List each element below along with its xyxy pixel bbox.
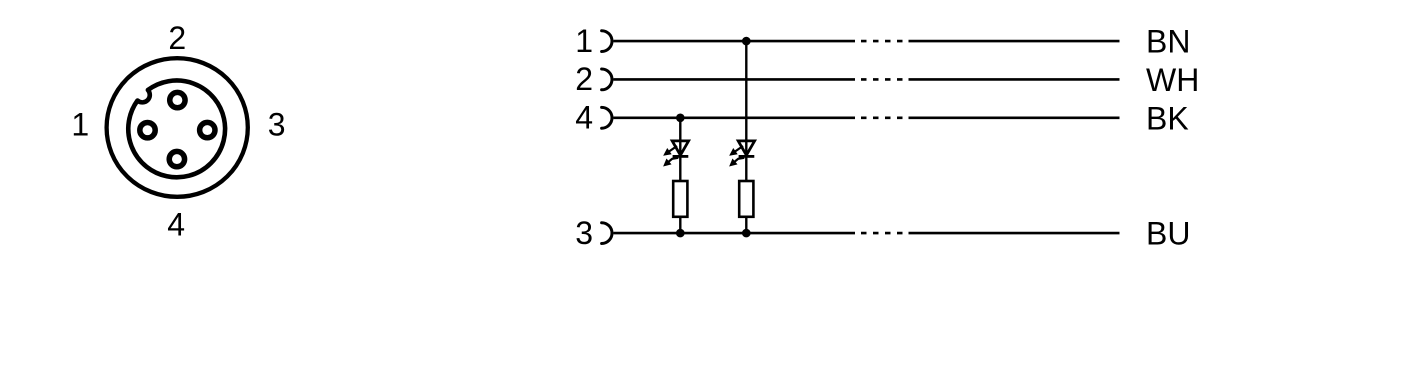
resistor R1 (left branch) (673, 181, 687, 217)
svg-text:1: 1 (71, 107, 89, 143)
pin 3 contact (right) (200, 122, 215, 137)
junction dot BU / right branch (742, 229, 751, 238)
pin 1 contact (left) (140, 123, 155, 138)
wire: left branch vertical (BK to BU) (679, 118, 681, 233)
pin 4 female contact arc (602, 107, 612, 128)
junction dot BN / right branch (742, 37, 751, 46)
junction dot BU / left branch (676, 229, 685, 238)
svg-text:BK: BK (1146, 100, 1189, 136)
svg-text:BN: BN (1146, 24, 1190, 60)
wire: right branch vertical (BN to BU) (745, 41, 747, 233)
pin 4 contact (bottom) (169, 151, 184, 166)
wire BK with cable break dashes (614, 117, 1120, 120)
resistor R2 (right branch) (739, 181, 753, 217)
connector M8 face view outer circle (107, 58, 248, 197)
pin 1 female contact arc (602, 31, 612, 52)
pin 2 contact (top) (170, 92, 185, 107)
connector inner circle with keyway notch (128, 81, 225, 178)
svg-text:BU: BU (1146, 216, 1190, 252)
svg-text:2: 2 (168, 20, 186, 56)
svg-text:2: 2 (575, 61, 593, 97)
svg-text:1: 1 (575, 23, 593, 59)
wire BN with cable break dashes (614, 40, 1120, 43)
pin 2 female contact arc (602, 69, 612, 90)
svg-text:3: 3 (268, 107, 286, 143)
svg-text:4: 4 (575, 100, 593, 136)
LED D2 (right branch) (730, 141, 755, 166)
wire WH with cable break dashes (614, 78, 1120, 81)
svg-text:4: 4 (167, 206, 185, 242)
pin 3 female contact arc (602, 223, 612, 244)
LED D1 (left branch) (664, 141, 689, 166)
svg-text:3: 3 (575, 215, 593, 251)
junction dot BK / left branch (676, 114, 685, 123)
wire BU with cable break dashes (614, 232, 1120, 235)
svg-text:WH: WH (1146, 62, 1199, 98)
